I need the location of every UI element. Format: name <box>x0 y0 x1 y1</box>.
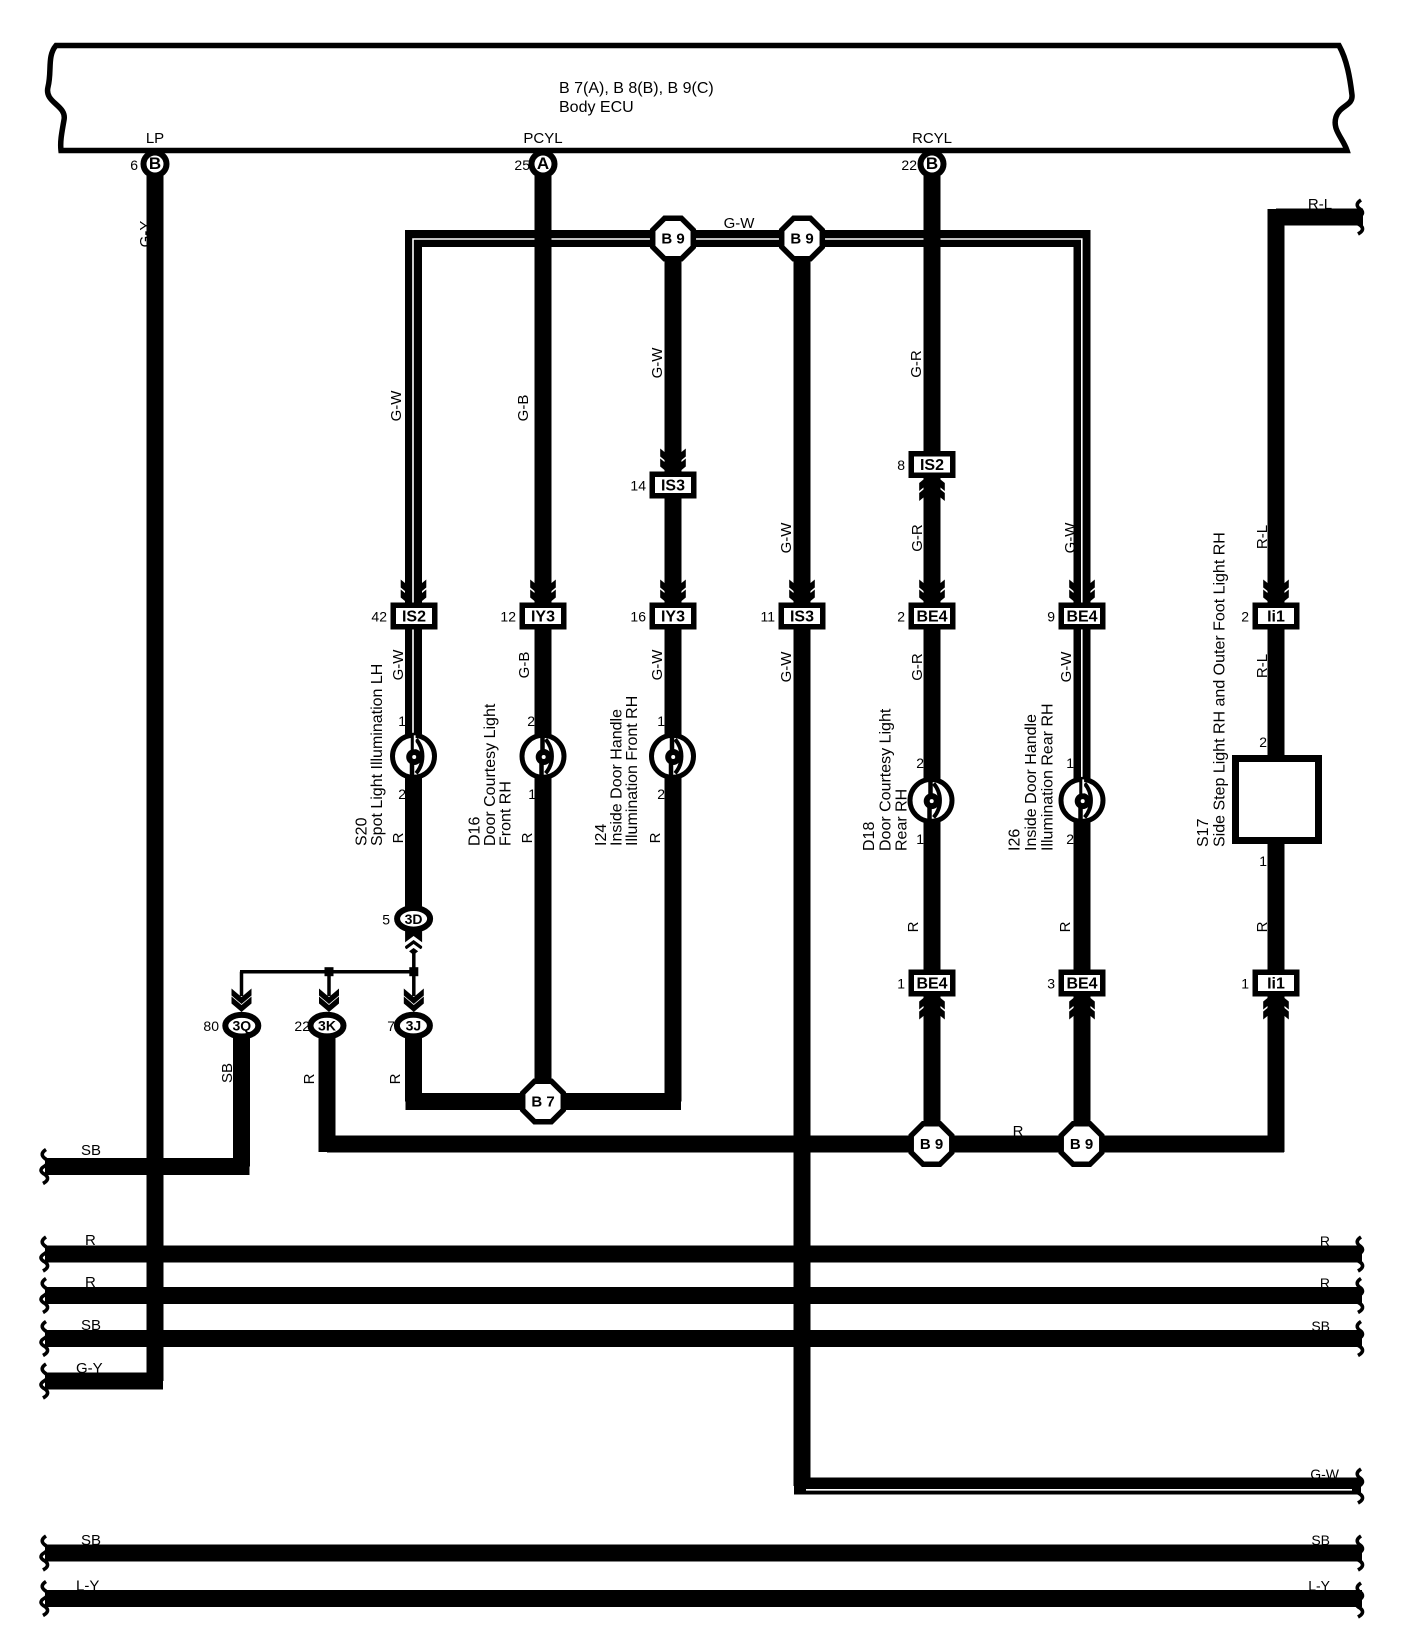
junction connector B9 (top right) <box>782 218 823 259</box>
junction connector B9 (top left) <box>653 218 694 259</box>
bus SB row4 bottom <box>45 1545 1362 1562</box>
svg-text:IS2: IS2 <box>920 457 944 474</box>
svg-text:BE4: BE4 <box>1066 609 1097 626</box>
svg-text:2: 2 <box>897 609 905 625</box>
connector arrow up into BE4 pin3 <box>1069 1001 1095 1020</box>
svg-text:Door Courtesy Light: Door Courtesy Light <box>482 703 499 846</box>
svg-text:G-W: G-W <box>1062 522 1079 554</box>
svg-text:25: 25 <box>514 157 530 173</box>
svg-text:Spot Light Illumination LH: Spot Light Illumination LH <box>369 664 386 846</box>
wire R-L top right with break <box>1276 209 1363 217</box>
wire G-W from B9 junction down through IS3 pin14, IY3 pin16, I24 to B7 run <box>665 239 682 1102</box>
arrow down into 3J <box>404 989 424 1005</box>
bus SB left (from 3Q) <box>45 1158 250 1175</box>
svg-text:A: A <box>537 154 549 173</box>
bulb I24 Inside Door Handle Illumination Front RH <box>652 735 694 777</box>
svg-text:SB: SB <box>81 1532 101 1549</box>
svg-text:G-W: G-W <box>1058 651 1075 683</box>
connector 3D pin 5 <box>397 908 430 930</box>
svg-text:5: 5 <box>382 911 390 927</box>
svg-text:G-W: G-W <box>390 649 407 681</box>
svg-text:Front RH: Front RH <box>498 781 515 846</box>
svg-text:R: R <box>1254 921 1271 932</box>
right break end 4 <box>1356 1469 1363 1503</box>
wire R from 3K ellipse down <box>319 1038 336 1150</box>
connector Ii1 pin 2 <box>1253 603 1300 630</box>
svg-text:1: 1 <box>1241 976 1249 992</box>
svg-text:B 7(A), B 8(B), B 9(C): B 7(A), B 8(B), B 9(C) <box>559 80 714 97</box>
svg-text:1: 1 <box>528 786 536 802</box>
thin junction bar <box>240 970 415 974</box>
junction connector B9 (bottom right) <box>1061 1124 1102 1165</box>
svg-text:B 9: B 9 <box>661 231 684 248</box>
connector BE4 pin 2 <box>909 603 956 630</box>
svg-text:G-W: G-W <box>778 522 795 554</box>
svg-text:R-L: R-L <box>1308 196 1332 213</box>
svg-text:G-W: G-W <box>388 390 405 422</box>
ECU pin 6 (B) LP <box>144 153 167 176</box>
svg-text:IS3: IS3 <box>661 478 685 495</box>
junction connector B7 <box>523 1081 564 1122</box>
svg-text:B 9: B 9 <box>790 231 813 248</box>
connector arrow into Ii1 pin2 <box>1263 580 1289 599</box>
svg-text:I24: I24 <box>593 824 610 846</box>
svg-text:1: 1 <box>1259 853 1267 869</box>
svg-text:RCYL: RCYL <box>912 130 952 147</box>
svg-text:Body ECU: Body ECU <box>559 99 634 116</box>
svg-text:IY3: IY3 <box>531 609 555 626</box>
svg-text:Ii1: Ii1 <box>1267 976 1285 993</box>
connector arrow into BE4 pin9 (striped) <box>1069 580 1095 599</box>
svg-text:2: 2 <box>1259 734 1267 750</box>
connector IS2 pin 8 <box>909 451 956 478</box>
B7 run horizontal <box>406 1093 682 1110</box>
bus G-Y bottom-left <box>45 1373 163 1390</box>
svg-text:B 9: B 9 <box>1070 1136 1093 1153</box>
bus SB row3 <box>45 1330 1362 1347</box>
bulb I26 Inside Door Handle Illumination Rear RH <box>1061 779 1103 821</box>
svg-text:R: R <box>1013 1123 1024 1140</box>
connector IS2 pin 42 <box>391 603 438 630</box>
junction dot B <box>409 967 418 976</box>
connector BE4 pin 1 <box>909 970 956 997</box>
svg-text:R: R <box>387 1073 404 1084</box>
svg-text:3J: 3J <box>406 1018 422 1034</box>
right break end 5 <box>1356 1536 1363 1570</box>
wire R-L / R through Ii1, S17, Ii1 down to bottom-right run <box>1268 213 1285 1152</box>
svg-text:2: 2 <box>527 713 535 729</box>
right break end 6 <box>1356 1583 1363 1617</box>
white stripe of bottom G-W run <box>806 1489 1352 1491</box>
svg-text:R: R <box>390 832 407 843</box>
svg-text:R: R <box>1320 1275 1330 1291</box>
svg-text:B 9: B 9 <box>920 1136 943 1153</box>
svg-text:12: 12 <box>500 609 516 625</box>
connector IY3 pin 12 <box>520 603 567 630</box>
left break end 3 <box>41 1322 48 1356</box>
svg-text:1: 1 <box>657 713 665 729</box>
svg-text:Door Courtesy Light: Door Courtesy Light <box>878 708 895 851</box>
bulb D18 Door Courtesy Light Rear RH <box>910 779 952 821</box>
connector 3Q pin 80 <box>225 1015 258 1037</box>
svg-text:G-W: G-W <box>778 651 795 683</box>
svg-text:22: 22 <box>901 157 917 173</box>
arrow down into 3K <box>319 989 339 1005</box>
connector arrow into IS3 pin14 <box>660 449 686 468</box>
wire R from I26 bulb down through BE4 pin3 to B9 <box>1074 818 1091 1152</box>
svg-text:22: 22 <box>294 1018 310 1034</box>
svg-text:IS2: IS2 <box>402 609 426 626</box>
svg-text:PCYL: PCYL <box>523 130 562 147</box>
svg-text:SB: SB <box>81 1142 101 1159</box>
svg-text:1: 1 <box>916 831 924 847</box>
svg-text:R: R <box>519 832 536 843</box>
svg-text:3: 3 <box>1047 976 1055 992</box>
connector 3K pin 22 <box>311 1015 344 1037</box>
svg-text:BE4: BE4 <box>916 976 947 993</box>
thin wire from 3D to junction bar <box>412 950 416 972</box>
svg-text:L-Y: L-Y <box>1308 1578 1330 1594</box>
svg-text:G-W: G-W <box>649 347 666 379</box>
svg-text:2: 2 <box>1241 609 1249 625</box>
connector arrow into IS2 pin42 (striped) <box>401 580 427 599</box>
svg-text:G-Y: G-Y <box>137 221 154 248</box>
svg-text:Ii1: Ii1 <box>1267 609 1285 626</box>
svg-text:S20: S20 <box>354 817 371 846</box>
svg-text:Illumination Front RH: Illumination Front RH <box>624 696 641 846</box>
connector IY3 pin 16 <box>650 603 697 630</box>
ECU pin 22 (B) RCYL <box>921 153 944 176</box>
connector 3J pin 7 <box>397 1015 430 1037</box>
bulb D16 Door Courtesy Light Front RH <box>522 735 564 777</box>
svg-text:D18: D18 <box>861 822 878 851</box>
bus R row1 <box>45 1246 1362 1263</box>
bulb S20 Spot Light Illumination LH <box>393 735 435 777</box>
svg-text:R: R <box>1057 921 1074 932</box>
bus G-W bottom right <box>794 1478 1361 1495</box>
bus L-Y row5 bottom <box>45 1590 1362 1607</box>
svg-text:3K: 3K <box>318 1018 336 1034</box>
svg-text:I26: I26 <box>1007 829 1024 851</box>
connector arrow up into IS2 pin8 <box>919 483 945 502</box>
connector arrow into BE4 pin2 <box>919 580 945 599</box>
wire G-R from RCYL pin22 down to IS2 pin8, BE4 pin2, D18, BE4 pin1, to bottom run <box>924 176 941 1152</box>
ECU pin 25 (A) PCYL <box>532 153 555 176</box>
svg-text:1: 1 <box>1066 755 1074 771</box>
svg-text:L-Y: L-Y <box>76 1578 99 1595</box>
wire G-W from B9 junction down through IS3 pin11 to bottom G-W run <box>794 239 811 1487</box>
svg-text:R: R <box>905 921 922 932</box>
svg-text:B: B <box>926 154 938 173</box>
connector arrow into IY3 pin16 <box>660 580 686 599</box>
wire G-B from PCYL pin25 down to B7 <box>535 176 552 1102</box>
connector arrow into IS3 pin11 <box>789 580 815 599</box>
svg-text:D16: D16 <box>467 817 484 846</box>
svg-text:IS3: IS3 <box>790 609 814 626</box>
left break end 1 <box>41 1237 48 1271</box>
right break end 0 <box>1356 200 1363 234</box>
junction connector B9 (bottom left) <box>911 1124 952 1165</box>
svg-text:B: B <box>149 154 161 173</box>
svg-text:G-R: G-R <box>909 524 926 552</box>
svg-text:S17: S17 <box>1195 818 1212 847</box>
svg-text:G-B: G-B <box>516 652 533 679</box>
svg-text:11: 11 <box>760 609 775 625</box>
svg-text:Rear RH: Rear RH <box>894 789 911 851</box>
bus R row2 <box>45 1287 1362 1304</box>
svg-text:42: 42 <box>371 609 387 625</box>
svg-text:G-B: G-B <box>515 395 532 422</box>
connector IS3 pin 14 <box>650 472 697 499</box>
Body ECU block B7(A)/B8(B)/B9(C) <box>48 46 1353 151</box>
svg-text:Inside Door Handle: Inside Door Handle <box>609 709 626 846</box>
svg-text:1: 1 <box>897 976 905 992</box>
svg-text:BE4: BE4 <box>916 609 947 626</box>
svg-text:BE4: BE4 <box>1066 976 1097 993</box>
connector BE4 pin 3 <box>1059 970 1106 997</box>
connector Ii1 pin 1 <box>1253 970 1300 997</box>
svg-text:R: R <box>301 1073 318 1084</box>
component S17 Side Step Light RH and Outer Foot Light RH <box>1236 759 1319 841</box>
svg-text:G-W: G-W <box>649 649 666 681</box>
white stripe of paired wires <box>413 239 1082 779</box>
svg-text:R: R <box>1320 1233 1330 1249</box>
right break end 1 <box>1356 1237 1363 1271</box>
svg-text:R-L: R-L <box>1254 525 1271 549</box>
wire SB from 3Q ellipse down to SB bus <box>233 1038 250 1167</box>
wire G-Y from Body ECU LP pin6 down to G-Y bus <box>147 176 164 1381</box>
svg-text:G-W: G-W <box>724 215 756 232</box>
connector arrow up into Ii1 pin1 <box>1263 1001 1289 1020</box>
svg-text:SB: SB <box>1311 1318 1330 1334</box>
svg-text:G-R: G-R <box>909 653 926 681</box>
svg-text:SB: SB <box>81 1317 101 1334</box>
svg-text:B 7: B 7 <box>531 1094 554 1111</box>
connector IS3 pin 11 <box>779 603 826 630</box>
svg-text:R: R <box>647 832 664 843</box>
svg-text:2: 2 <box>916 755 924 771</box>
svg-text:Illumination Rear RH: Illumination Rear RH <box>1040 703 1057 851</box>
svg-text:1: 1 <box>398 713 406 729</box>
svg-text:SB: SB <box>219 1063 236 1083</box>
left break end 6 <box>41 1582 48 1616</box>
svg-text:8: 8 <box>897 457 905 473</box>
svg-text:2: 2 <box>1066 831 1074 847</box>
thin drop to 3Q <box>240 972 244 996</box>
left break end 4 <box>41 1364 48 1398</box>
junction dot A <box>325 967 334 976</box>
thin drop to 3J <box>412 972 416 996</box>
svg-text:R: R <box>85 1232 96 1249</box>
svg-text:16: 16 <box>630 609 646 625</box>
svg-text:R-L: R-L <box>1254 654 1271 678</box>
svg-text:6: 6 <box>130 157 138 173</box>
wire G-W trunk (top horizontal pair from corner x407 to corner x1082) <box>414 239 1083 780</box>
svg-text:7: 7 <box>387 1018 395 1034</box>
svg-text:G-R: G-R <box>908 350 925 378</box>
svg-text:2: 2 <box>657 786 665 802</box>
svg-text:14: 14 <box>630 478 646 494</box>
svg-text:IY3: IY3 <box>661 609 685 626</box>
left break end 2 <box>41 1279 48 1313</box>
svg-text:R: R <box>85 1274 96 1291</box>
svg-text:2: 2 <box>398 786 406 802</box>
left break end 0 <box>41 1150 48 1184</box>
svg-text:3D: 3D <box>405 911 423 927</box>
svg-text:Side Step Light RH and Outer F: Side Step Light RH and Outer Foot Light … <box>1212 532 1229 847</box>
arrow up into 3D <box>405 930 422 955</box>
wire R from 3J ellipse down to B7 run <box>405 1038 422 1102</box>
svg-text:3Q: 3Q <box>232 1018 251 1034</box>
svg-text:SB: SB <box>1311 1532 1330 1548</box>
svg-text:G-Y: G-Y <box>76 1360 103 1377</box>
left break end 5 <box>41 1536 48 1570</box>
wire from S20 bulb down to 3D connector <box>405 750 422 910</box>
svg-text:G-W: G-W <box>1310 1466 1340 1482</box>
svg-text:LP: LP <box>146 130 164 147</box>
bottom-right R run from 3K corner through B9,B9 to Ii1 corner <box>327 1144 1284 1152</box>
right break end 2 <box>1356 1279 1363 1313</box>
right break end 3 <box>1356 1322 1363 1356</box>
connector arrow into IY3 pin12 <box>530 580 556 599</box>
thin drop to 3K <box>327 972 331 996</box>
connector arrow up into BE4 pin1 <box>919 1001 945 1020</box>
arrow down into 3Q <box>232 989 252 1005</box>
svg-text:80: 80 <box>203 1018 219 1034</box>
connector BE4 pin 9 <box>1059 603 1106 630</box>
svg-text:9: 9 <box>1047 609 1055 625</box>
svg-text:Inside Door Handle: Inside Door Handle <box>1023 714 1040 851</box>
